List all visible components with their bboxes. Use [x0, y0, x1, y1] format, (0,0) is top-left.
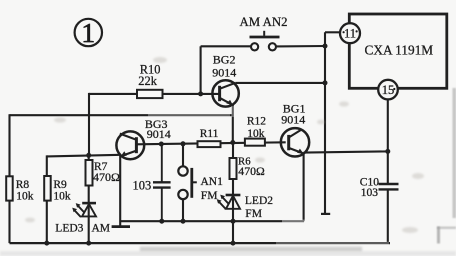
- svg-text:AN1: AN1: [201, 176, 224, 188]
- svg-text:R8: R8: [16, 179, 30, 191]
- svg-text:9014: 9014: [281, 113, 305, 127]
- svg-text:AM AN2: AM AN2: [240, 15, 288, 29]
- svg-text:10k: 10k: [16, 190, 34, 202]
- svg-text:CXA 1191M: CXA 1191M: [365, 42, 434, 57]
- svg-text:FM: FM: [201, 190, 218, 202]
- svg-text:470Ω: 470Ω: [93, 170, 120, 184]
- svg-text:9014: 9014: [212, 65, 236, 79]
- svg-text:FM: FM: [245, 208, 262, 220]
- svg-text:470Ω: 470Ω: [238, 164, 265, 178]
- svg-text:AM: AM: [92, 223, 111, 235]
- svg-text:11: 11: [344, 27, 356, 41]
- svg-text:10k: 10k: [53, 190, 71, 202]
- svg-text:LED2: LED2: [245, 195, 273, 207]
- svg-text:15: 15: [382, 83, 395, 97]
- svg-text:LED3: LED3: [55, 223, 83, 235]
- svg-text:R11: R11: [200, 128, 219, 140]
- svg-text:10k: 10k: [247, 128, 264, 140]
- svg-text:9014: 9014: [147, 127, 171, 141]
- svg-text:R12: R12: [247, 116, 266, 128]
- svg-text:R9: R9: [53, 179, 67, 191]
- svg-text:103: 103: [133, 179, 152, 193]
- svg-text:103: 103: [361, 187, 379, 199]
- svg-text:1: 1: [81, 17, 95, 48]
- svg-text:22k: 22k: [138, 74, 157, 88]
